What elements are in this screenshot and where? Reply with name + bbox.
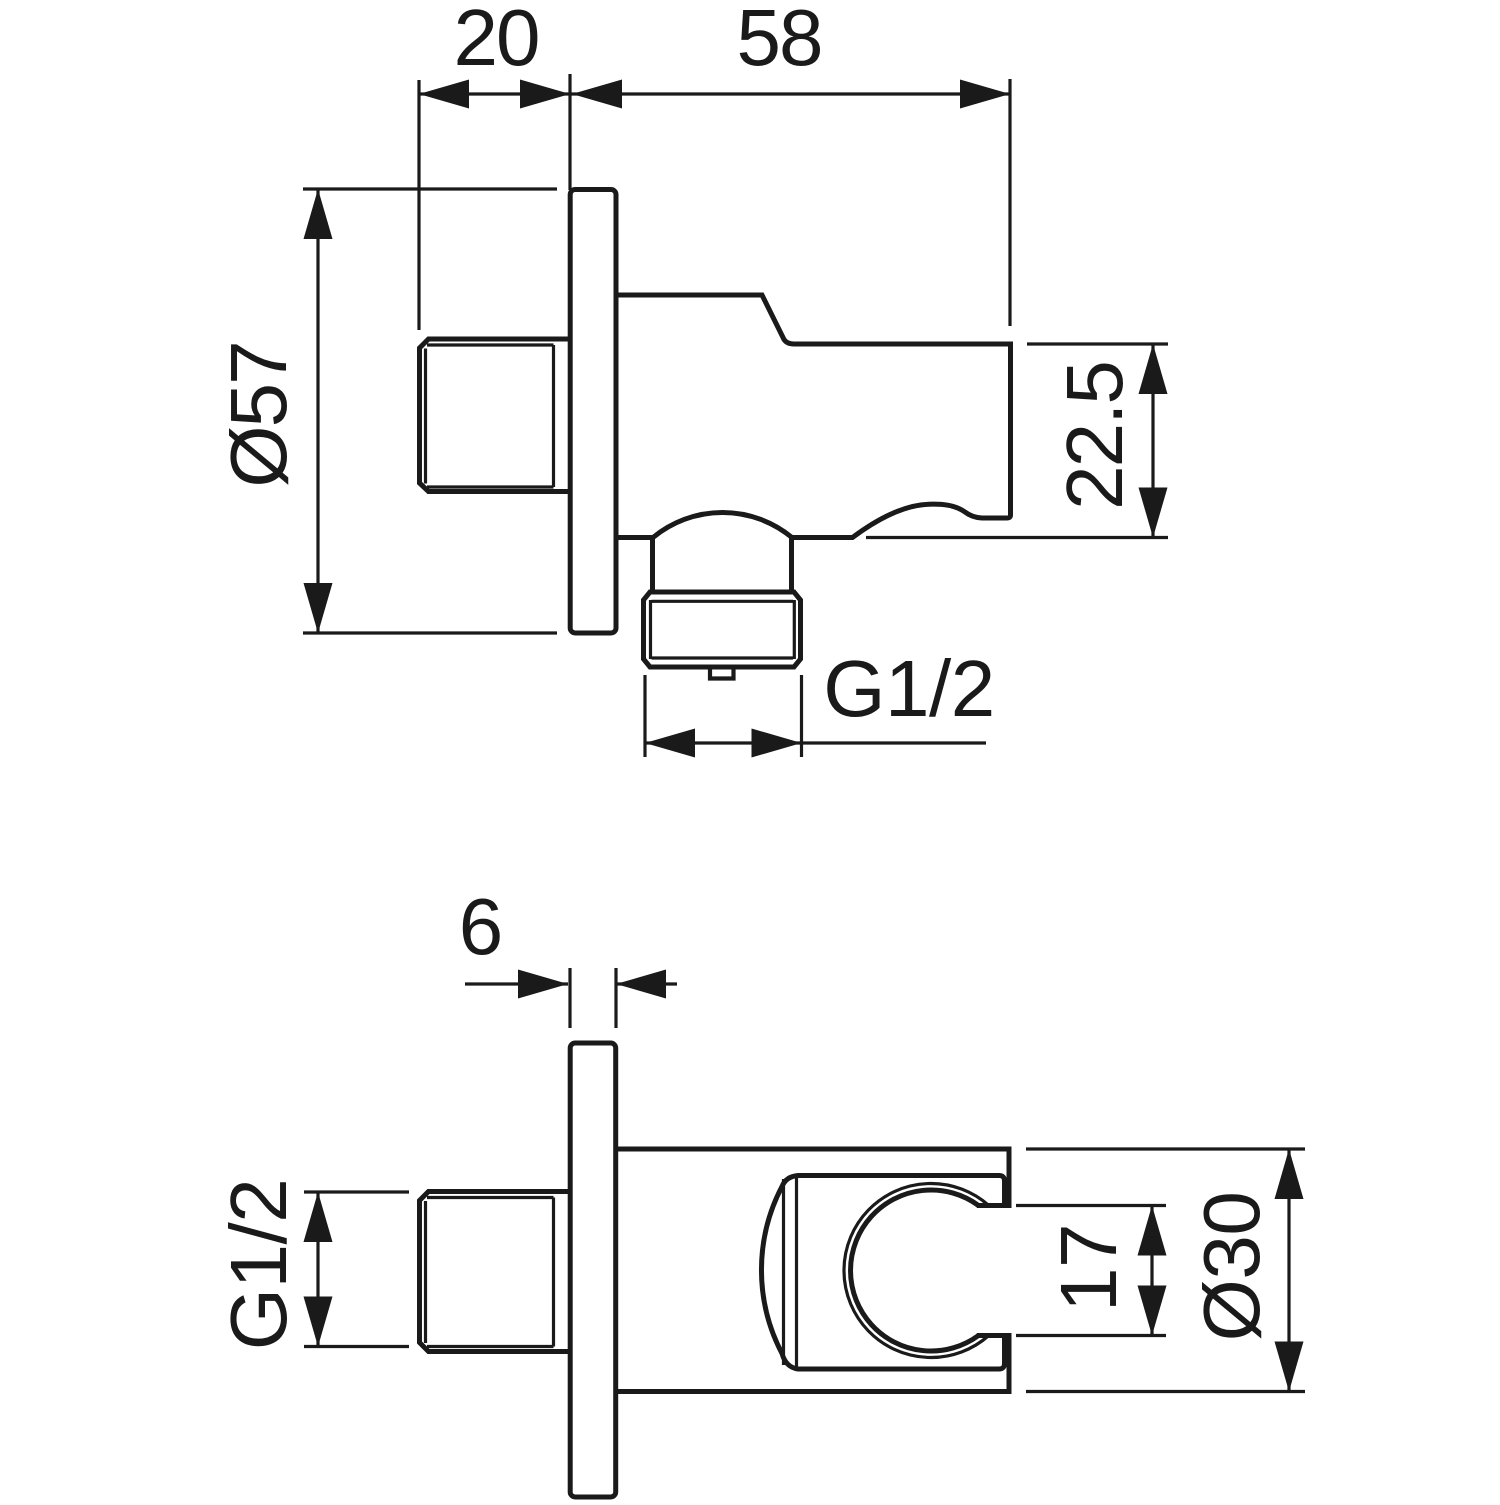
dimension Ø30: dimension line <box>1287 1149 1290 1392</box>
dimension G1/2 bottom: extension lines <box>304 1192 409 1347</box>
arrowheads dim 17 <box>1138 1206 1167 1256</box>
arrowheads dim Ø57 <box>304 189 333 239</box>
bottom view: G1/2 threaded inlet square <box>420 1192 569 1352</box>
svg-text:Ø30: Ø30 <box>1187 1192 1276 1342</box>
svg-text:17: 17 <box>1044 1224 1133 1312</box>
top view: outlet bottom tab <box>710 670 734 679</box>
top view: outlet neck sides <box>653 538 792 593</box>
bottom view: wall flange plate <box>570 1043 616 1497</box>
svg-text:20: 20 <box>454 0 539 82</box>
dimension 17: dimension line <box>1150 1206 1153 1336</box>
arrowheads dim Ø30 <box>1275 1149 1304 1199</box>
arrowheads dim 22.5 <box>1139 344 1168 394</box>
dimension 6: extension lines <box>465 968 677 1028</box>
top view: wall flange plate <box>570 190 616 634</box>
arrowheads dim 20 <box>419 80 469 109</box>
dimension Ø30: extension lines <box>1026 1149 1305 1392</box>
svg-text:22.5: 22.5 <box>1050 362 1139 510</box>
top view: outlet nut outer <box>644 592 801 667</box>
arrowheads dim 58 <box>572 80 622 109</box>
dimension 22.5: extension lines <box>866 344 1168 538</box>
top view: outlet nut inner lines <box>651 600 795 659</box>
dimension 20/58: dimension line <box>419 92 1010 95</box>
dimension G1/2 bottom: dimension line <box>316 1192 319 1347</box>
svg-text:58: 58 <box>737 0 822 82</box>
dimension G1/2 top: dimension line <box>645 741 986 744</box>
bottom view: grip ring inner circle <box>851 1190 979 1351</box>
dimension Ø57: extension lines <box>303 189 557 633</box>
bottom view: holder bracket outer <box>618 1149 1009 1206</box>
top view: G1/2 threaded inlet square <box>420 339 569 492</box>
dimension G1/2 top: extension lines <box>645 675 986 757</box>
arrowheads dim G1/2 top <box>645 729 695 758</box>
arrowheads dim G1/2 bottom <box>304 1192 333 1242</box>
dimension 22.5: dimension line <box>1151 344 1154 538</box>
dimension 6: dimension line segments <box>465 982 677 985</box>
arrowheads dim 6 (outside) <box>518 970 568 999</box>
dimension Ø57: dimension line <box>316 189 319 633</box>
bottom view: grip ring outer circle <box>844 1184 989 1358</box>
dimension 17: extension lines <box>1016 1206 1166 1336</box>
svg-text:6: 6 <box>459 882 502 971</box>
bottom view: holder cup outline <box>761 1176 1004 1370</box>
svg-text:Ø57: Ø57 <box>214 342 303 487</box>
svg-text:G1/2: G1/2 <box>823 644 994 733</box>
dimension 20: extension lines <box>419 74 1010 330</box>
top view: holder body outline <box>618 295 1011 538</box>
bottom view: cup inner edge line <box>784 1177 797 1367</box>
top view: thread inner lines <box>426 345 554 487</box>
svg-text:G1/2: G1/2 <box>214 1179 303 1350</box>
bottom view: thread inner lines <box>426 1198 554 1347</box>
